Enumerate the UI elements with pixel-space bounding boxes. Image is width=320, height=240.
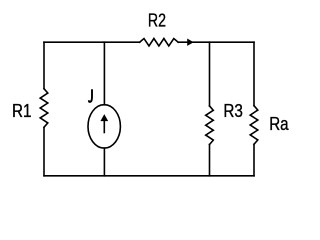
wire bottom bbox=[44, 175, 254, 177]
resistor R3 bbox=[206, 106, 214, 145]
wire J branch top bbox=[103, 42, 105, 105]
svg-text:R1: R1 bbox=[12, 101, 32, 121]
resistor R1 bbox=[40, 89, 48, 128]
current source J ellipse bbox=[88, 105, 120, 148]
wire right edge top bbox=[253, 42, 255, 105]
current source J arrow head bbox=[100, 114, 108, 121]
label J (narrow DejaVu-style J drawn as path) bbox=[89, 89, 92, 102]
svg-text:R3: R3 bbox=[223, 101, 243, 121]
wire R3 branch bottom bbox=[209, 145, 211, 176]
wire top right: R2 to node B and right edge bbox=[178, 41, 254, 43]
wire right edge bottom bbox=[253, 144, 255, 176]
wire left edge bottom bbox=[43, 127, 45, 176]
resistor R2 bbox=[140, 39, 179, 46]
wire R3 branch top bbox=[209, 42, 211, 106]
wire J branch bottom bbox=[103, 148, 105, 176]
svg-text:R2: R2 bbox=[148, 11, 166, 31]
current source J arrow shaft bbox=[103, 121, 105, 133]
wire left edge top bbox=[43, 42, 45, 88]
svg-text:Ra: Ra bbox=[269, 114, 289, 134]
resistor Ra bbox=[250, 106, 258, 145]
wire top left: node A to R2 bbox=[44, 41, 140, 43]
current arrow head on top wire bbox=[187, 39, 193, 46]
